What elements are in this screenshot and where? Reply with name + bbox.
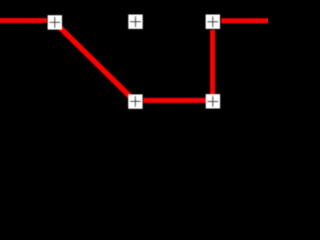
node C (top-right handle) [206, 15, 220, 29]
wire W5 (node C to right edge) [221, 18, 270, 23]
node B (isolated handle) [128, 15, 142, 29]
node D (bottom-left handle) [128, 94, 142, 108]
wire W2 (diagonal node A to node D) [55, 22, 136, 101]
wire W4 (node E to node C, vertical) [210, 30, 215, 101]
wire W1 (left edge to node A) [0, 18, 47, 23]
node E (bottom-right handle) [206, 94, 220, 108]
node A (junction handle) [48, 15, 62, 29]
wire W3 (node D to node E, bottom horizontal) [143, 98, 213, 103]
